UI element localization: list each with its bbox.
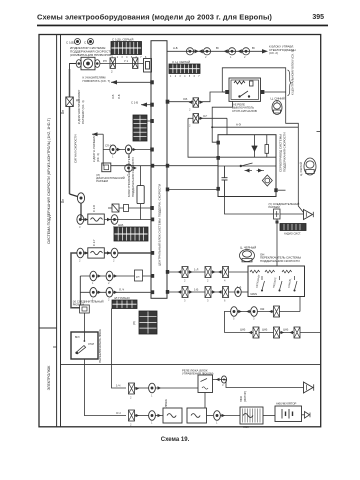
- svg-text:Схема 19.: Схема 19.: [161, 437, 190, 443]
- svg-text:4Л ГУМАНО: 4Л ГУМАНО: [114, 296, 131, 300]
- svg-text:рл: рл: [136, 275, 140, 279]
- svg-text:С 2-Г: С 2-Г: [92, 239, 96, 246]
- svg-text:СИГНАЛ СКОРОСТИ: СИГНАЛ СКОРОСТИ: [74, 135, 78, 163]
- sunroof hatched box: [240, 407, 263, 424]
- actuator servo box: [218, 135, 276, 197]
- connector C grey right: [304, 158, 316, 175]
- diagnostic connector box: [102, 163, 111, 172]
- svg-text:АУДИО СИСТ.: АУДИО СИСТ.: [284, 232, 301, 236]
- hatched strip ShB: [114, 227, 148, 241]
- svg-text:3: 3: [253, 317, 255, 321]
- X-box d3: [218, 287, 229, 298]
- fuse row208: [108, 207, 152, 209]
- connector strip C1(A): [111, 42, 142, 55]
- switch blade 3: [294, 276, 297, 291]
- connector oval lamp left: [76, 60, 81, 68]
- node C2(T) marker: [88, 39, 94, 45]
- servo diode left: [245, 169, 250, 173]
- connector X-box row118: [193, 114, 203, 123]
- row E oval1: [231, 307, 242, 317]
- svg-text:(КОМБИНАЦИЯ ПРИБОРОВ): (КОМБИНАЦИЯ ПРИБОРОВ): [70, 53, 112, 57]
- row y149: [103, 149, 151, 151]
- row1 X-box: [129, 383, 140, 394]
- connector joint box lower left: [80, 305, 90, 313]
- svg-text:РЛ: РЛ: [103, 59, 107, 63]
- arrow row diag: [92, 133, 103, 135]
- svg-text:6: 6: [224, 299, 226, 303]
- fuse box on JB edge: [144, 59, 152, 73]
- bus lower: [80, 203, 82, 219]
- svg-text:Ц, СИНИЙ: Ц, СИНИЙ: [271, 97, 285, 101]
- row149 oval2: [125, 145, 136, 154]
- svg-text:1: 1: [92, 281, 94, 285]
- JB right rows: row D2 y292: [168, 291, 241, 293]
- row E y311: [224, 312, 300, 333]
- svg-text:ЗЖ: ЗЖ: [260, 307, 265, 311]
- svg-text:1-Л: 1-Л: [194, 267, 198, 271]
- svg-text:РАЗЪЕМ: РАЗЪЕМ: [269, 205, 281, 209]
- JB pin row101: [166, 100, 170, 104]
- JB right rows: row C2 y272: [168, 271, 249, 273]
- connector strip 3C: [169, 64, 200, 74]
- node C1(B) marker: [75, 39, 81, 45]
- wire relay right pin: [264, 91, 285, 93]
- svg-text:Ц, СЕРЫЙ: Ц, СЕРЫЙ: [299, 162, 303, 176]
- servo box compartment line: [218, 156, 276, 158]
- cruise switch box: [248, 266, 305, 297]
- inline connector pair D: [238, 48, 250, 55]
- svg-text:Л-Б: Л-Б: [117, 94, 121, 99]
- ground triangle G2: [304, 382, 314, 393]
- svg-text:К ЦЕНТРАЛЬНОМУ БЛОКУ (СХ. 5): К ЦЕНТРАЛЬНОМУ БЛОКУ (СХ. 5): [291, 50, 295, 95]
- svg-text:Ш-Б: Ш-Б: [262, 328, 267, 332]
- switch resistor 2: [265, 270, 275, 273]
- relay to row2 drop: [204, 393, 206, 416]
- connector F3 on lamp row: [133, 58, 138, 69]
- ground triangle G1: [304, 210, 314, 220]
- relay resistor block: [250, 81, 254, 86]
- svg-text:3: 3: [79, 225, 81, 229]
- switch resistor 1: [250, 270, 260, 273]
- connector X-box row101: [189, 98, 204, 107]
- JB pin rowC: [151, 274, 154, 278]
- relay contact: [239, 91, 250, 97]
- row F X-box3: [289, 327, 300, 338]
- svg-text:9: 9: [62, 198, 64, 202]
- row E oval2: [246, 307, 257, 317]
- inline connector pair C: [224, 48, 236, 55]
- resistor vertical: [140, 166, 142, 186]
- svg-text:З-Г: З-Г: [203, 114, 208, 118]
- svg-text:С 2-Б: С 2-Б: [92, 205, 96, 212]
- X-box c3: [218, 267, 229, 278]
- servo left pins: [217, 141, 220, 145]
- row A oval right: [107, 215, 118, 225]
- connector C black: [240, 250, 255, 262]
- svg-text:4: 4: [224, 279, 226, 283]
- row B oval right: [107, 248, 118, 258]
- X-box c2: [205, 267, 216, 278]
- svg-text:ЭЛЕКТРОЛЮК: ЭЛЕКТРОЛЮК: [47, 365, 51, 391]
- svg-text:СИСТЕМА ПОДДЕРЖАНИЯ СКОРОСТИ (: СИСТЕМА ПОДДЕРЖАНИЯ СКОРОСТИ (КРУИЗ-КОНТ…: [47, 118, 51, 244]
- servo motor: [262, 175, 272, 186]
- svg-text:1: 1: [230, 55, 232, 59]
- servo switch blade: [218, 163, 276, 167]
- row149 oval1: [110, 145, 121, 154]
- wire row118 right: [188, 118, 218, 157]
- row2 X-box: [129, 410, 140, 421]
- row F X-box2: [274, 327, 285, 338]
- svg-text:ПОДДЕРЖАНИЯ СКОРОСТИ: ПОДДЕРЖАНИЯ СКОРОСТИ: [131, 157, 135, 197]
- X-box c1: [177, 267, 192, 278]
- svg-text:(СХ. 4): (СХ. 4): [96, 153, 100, 162]
- row A y219: [81, 219, 153, 221]
- lever: [75, 332, 85, 354]
- JB pin rowB: [151, 251, 154, 255]
- svg-text:Ш-Б: Ш-Б: [240, 328, 245, 332]
- junction row127: [212, 126, 298, 128]
- svg-text:З-Ч: З-Ч: [116, 411, 121, 415]
- relay right pin: [261, 90, 265, 94]
- wire lever down: [84, 359, 126, 416]
- row F X-box1: [248, 327, 259, 338]
- wire servo to ground: [225, 197, 304, 215]
- JB pin rowD: [151, 290, 154, 294]
- svg-text:(Л): (Л): [132, 321, 136, 325]
- svg-text:С 1(Д), СЕРЫЙ: С 1(Д), СЕРЫЙ: [112, 37, 133, 41]
- left riser rows: [79, 276, 81, 305]
- row1 oval: [149, 383, 162, 393]
- svg-text:РАЗЪЕМУ (СХ. 4): РАЗЪЕМУ (СХ. 4): [81, 100, 85, 124]
- sidebar right edge: [56, 35, 58, 427]
- svg-text:2: 2: [244, 55, 246, 59]
- switch blade 1: [261, 276, 264, 291]
- header rule: [37, 25, 328, 27]
- svg-text:5: 5: [233, 317, 235, 321]
- wire strip to switch: [276, 219, 278, 266]
- inline oval dark: [221, 376, 226, 383]
- sine box B: [88, 248, 105, 258]
- inline connector pair A: [186, 48, 198, 55]
- arrow to window ECU: [262, 49, 268, 53]
- svg-text:Л, Ч: Л, Ч: [119, 288, 124, 292]
- svg-text:ПЕРЕКЛЮЧАТЕЛЬ ЛЮКА: ПЕРЕКЛЮЧАТЕЛЬ ЛЮКА: [98, 329, 102, 363]
- wire into ECU top: [226, 118, 228, 134]
- servo resistor R: [265, 135, 269, 158]
- svg-text:СТОП-СИГНАЛОВ: СТОП-СИГНАЛОВ: [232, 109, 257, 113]
- svg-text:Схемы электрооборудования (мод: Схемы электрооборудования (модели до 200…: [37, 13, 272, 22]
- servo entry wire y189: [168, 189, 219, 191]
- switch blade 2: [279, 276, 282, 291]
- row C oval1: [90, 271, 101, 281]
- row E X-box: [269, 306, 280, 317]
- connector oval lamp right: [95, 60, 100, 68]
- wire joint to lever box: [83, 313, 85, 332]
- switch resistor 3: [282, 270, 292, 273]
- svg-text:С 1-Б: С 1-Б: [131, 101, 138, 105]
- hatched block L tall: [139, 311, 157, 334]
- svg-text:Ш-Б: Ш-Б: [118, 223, 123, 227]
- sine box A: [88, 214, 105, 224]
- frame tick right: [317, 130, 321, 132]
- sidebar section divider: [39, 327, 57, 329]
- bus shift connector: [70, 193, 85, 203]
- inline connector diag row: [125, 164, 137, 172]
- svg-text:ПОДДЕРЖАНИЯ СКОРОСТИ: ПОДДЕРЖАНИЯ СКОРОСТИ: [260, 259, 300, 263]
- svg-text:ПОДДЕРЖАНИЯ СКОРОСТИ: ПОДДЕРЖАНИЯ СКОРОСТИ: [283, 132, 287, 172]
- svg-text:RES/ACC: RES/ACC: [273, 277, 278, 288]
- wire arrow row2: [137, 120, 152, 122]
- indicator lamp L1: [81, 57, 95, 70]
- JB edge pins diag row: [151, 164, 154, 168]
- row B y253: [71, 253, 153, 308]
- JB pin row82: [150, 80, 154, 84]
- svg-text:Вт: Вт: [252, 46, 256, 50]
- X-box d1: [177, 287, 192, 298]
- svg-text:ЛЮК: ЛЮК: [243, 425, 249, 429]
- frame tick left a: [61, 112, 65, 114]
- svg-text:(МОТОР): (МОТОР): [243, 391, 247, 402]
- svg-text:АККУМУЛЯТОР: АККУМУЛЯТОР: [276, 402, 297, 406]
- svg-text:8: 8: [62, 109, 64, 113]
- svg-text:2: 2: [108, 298, 110, 302]
- wire relay row left: [167, 92, 225, 102]
- svg-text:1-Б: 1-Б: [194, 287, 198, 291]
- row A oval left: [77, 215, 88, 225]
- relay cruise control box: [229, 78, 261, 101]
- JB pin rowA: [151, 218, 154, 222]
- svg-text:1 А: 1 А: [237, 285, 241, 289]
- svg-text:1 2 3 4 5 6 7: 1 2 3 4 5 6 7: [170, 76, 201, 78]
- svg-text:2: 2: [108, 281, 110, 285]
- servo diode D1: [252, 135, 258, 158]
- row2 oval: [149, 411, 162, 421]
- hatched strip 4L: [112, 300, 137, 309]
- relay left pin: [225, 90, 229, 94]
- svg-text:3. Ц, СЕРЫЙ: 3. Ц, СЕРЫЙ: [172, 60, 190, 64]
- svg-text:1: 1: [151, 421, 153, 425]
- svg-text:2: 2: [79, 259, 81, 263]
- row D oval1: [90, 288, 101, 298]
- svg-text:1: 1: [112, 155, 114, 159]
- connector C blue: [271, 97, 285, 115]
- svg-text:2: 2: [189, 108, 191, 112]
- svg-text:2: 2: [207, 279, 209, 283]
- svg-text:3: 3: [222, 383, 224, 387]
- svg-text:З-Б: З-Б: [111, 94, 115, 99]
- svg-text:ВКЛ: ВКЛ: [75, 337, 80, 339]
- svg-text:ЛЮК: ЛЮК: [239, 396, 243, 402]
- svg-text:2: 2: [113, 259, 115, 263]
- row C y276: [80, 275, 152, 277]
- switch bottom pin wire: [299, 297, 301, 312]
- sunroof relay box: [198, 375, 213, 393]
- X-box d2: [205, 287, 216, 298]
- relay exit wire to ground: [213, 380, 304, 388]
- svg-text:2: 2: [205, 55, 207, 59]
- sunroof motor box 2: [187, 408, 207, 423]
- svg-text:1 2 3 4 5 6 7 8: 1 2 3 4 5 6 7 8: [112, 57, 148, 59]
- svg-text:395: 395: [312, 14, 324, 21]
- svg-text:Ц, ЧЕРНЫЙ: Ц, ЧЕРНЫЙ: [240, 246, 256, 250]
- junction block JB: [151, 41, 167, 299]
- JB pin row121: [150, 119, 154, 123]
- svg-text:2: 2: [184, 279, 186, 283]
- outer frame: [39, 35, 321, 427]
- svg-text:2: 2: [130, 396, 132, 400]
- frame tick left b: [61, 201, 65, 203]
- row2 oval b: [214, 411, 226, 421]
- svg-text:1: 1: [151, 394, 153, 398]
- svg-text:У 1: У 1: [124, 59, 129, 63]
- svg-text:(СХ. 2): (СХ. 2): [269, 51, 278, 55]
- top feed wire: [167, 50, 262, 52]
- svg-text:CANCEL: CANCEL: [288, 277, 293, 288]
- sunroof motor box 1: [163, 408, 182, 423]
- svg-text:РАЗЪЕМ: РАЗЪЕМ: [73, 302, 85, 306]
- svg-text:2: 2: [189, 124, 191, 128]
- wire arrow row: [111, 81, 152, 83]
- oval pair into switch: [235, 287, 241, 296]
- servo right pin: [274, 188, 277, 192]
- sunroof switch box: [71, 332, 98, 359]
- row D y292: [80, 291, 152, 293]
- svg-text:3: 3: [207, 299, 209, 303]
- inline connector pair B: [199, 48, 211, 55]
- wire diag row: [111, 165, 218, 167]
- svg-text:2: 2: [111, 70, 113, 74]
- svg-text:А-Б: А-Б: [173, 46, 178, 50]
- svg-text:1-Ч: 1-Ч: [116, 384, 120, 388]
- battery box: [275, 406, 302, 422]
- svg-text:ПОВОРОТА (СХ. 7): ПОВОРОТА (СХ. 7): [83, 79, 111, 83]
- row B oval left: [77, 248, 88, 258]
- main area left edge: [60, 35, 62, 427]
- svg-text:С 1(Б): С 1(Б): [66, 41, 75, 45]
- svg-text:3: 3: [184, 299, 186, 303]
- svg-text:З.Б: З.Б: [183, 97, 187, 101]
- bus connector box: [66, 97, 74, 107]
- svg-text:А-Э: А-Э: [236, 123, 241, 127]
- svg-text:Ш-Б: Ш-Б: [283, 328, 288, 332]
- JB pin row104: [150, 103, 154, 107]
- servo capacitor: [222, 166, 228, 197]
- relay coil resistor: [234, 81, 245, 84]
- wire lamp row: [70, 64, 77, 70]
- svg-text:ЦЕНТРАЛЬНЫЙ БЛОК СИСТЕМЫ ПОДДЕ: ЦЕНТРАЛЬНЫЙ БЛОК СИСТЕМЫ ПОДДЕРЖ. СКОРОС…: [158, 184, 162, 266]
- frame tick sidebar: [53, 346, 57, 348]
- relay bottom wire: [212, 101, 232, 142]
- row C junction box: [135, 270, 143, 281]
- row F y332: [224, 332, 320, 334]
- servo diode right: [258, 169, 263, 173]
- row C oval2: [106, 271, 117, 281]
- main left bus: [69, 69, 71, 194]
- ground triangle G3: [305, 412, 311, 419]
- svg-text:РАЗЪЕМ: РАЗЪЕМ: [96, 179, 108, 183]
- wire relay loop top: [222, 68, 303, 213]
- wire block to row1: [112, 309, 127, 389]
- svg-text:SET/COAST: SET/COAST: [256, 274, 261, 288]
- brace: [288, 70, 292, 96]
- svg-text:Вт: Вт: [216, 46, 220, 50]
- hatched strip mid right: [280, 224, 306, 231]
- section divider line: [61, 363, 321, 365]
- connector strip P1: [133, 115, 147, 141]
- row D oval2: [106, 288, 117, 298]
- svg-text:2: 2: [130, 423, 132, 427]
- wire arrow row 104: [141, 104, 152, 106]
- connector F2 on lamp row: [110, 58, 115, 69]
- svg-text:С 2(Т): С 2(Т): [84, 41, 93, 45]
- svg-text:1: 1: [216, 421, 218, 425]
- connector X-box ground row: [274, 209, 281, 219]
- svg-text:СЛ-1: СЛ-1: [105, 144, 112, 148]
- svg-text:MAIN: MAIN: [251, 292, 258, 296]
- svg-text:ОТКЛ: ОТКЛ: [88, 344, 95, 346]
